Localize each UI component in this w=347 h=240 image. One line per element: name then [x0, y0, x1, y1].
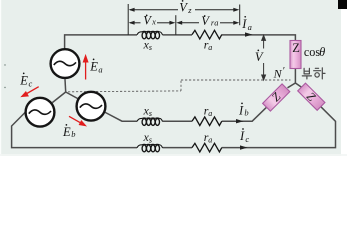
svg-text:Z: Z: [292, 41, 300, 55]
svg-text:c: c: [245, 134, 249, 144]
svg-text:x: x: [151, 17, 156, 27]
svg-text:a: a: [98, 65, 102, 75]
svg-text:b: b: [244, 108, 248, 118]
svg-text:V: V: [201, 14, 210, 28]
svg-text:ra: ra: [211, 18, 219, 28]
svg-text:b: b: [71, 129, 75, 139]
svg-text:I: I: [241, 17, 247, 31]
svg-text:cos: cos: [304, 45, 321, 59]
svg-text:N: N: [273, 67, 283, 81]
svg-text:a: a: [208, 109, 212, 118]
svg-text:I: I: [239, 129, 245, 143]
svg-text:E: E: [89, 60, 98, 74]
svg-text:s: s: [149, 109, 152, 118]
svg-text:E: E: [62, 125, 71, 139]
svg-text:θ: θ: [319, 45, 325, 59]
svg-text:a: a: [248, 22, 252, 32]
svg-text:c: c: [29, 79, 33, 89]
svg-text:a: a: [208, 136, 212, 145]
svg-text:s: s: [149, 136, 152, 145]
svg-text:z: z: [187, 5, 192, 15]
svg-text:V: V: [179, 0, 188, 14]
svg-text:′: ′: [283, 66, 285, 77]
svg-text:I: I: [238, 104, 244, 118]
svg-text:a: a: [208, 43, 212, 52]
svg-text:E: E: [19, 74, 28, 88]
svg-text:s: s: [149, 43, 152, 52]
svg-text:V: V: [143, 13, 152, 27]
